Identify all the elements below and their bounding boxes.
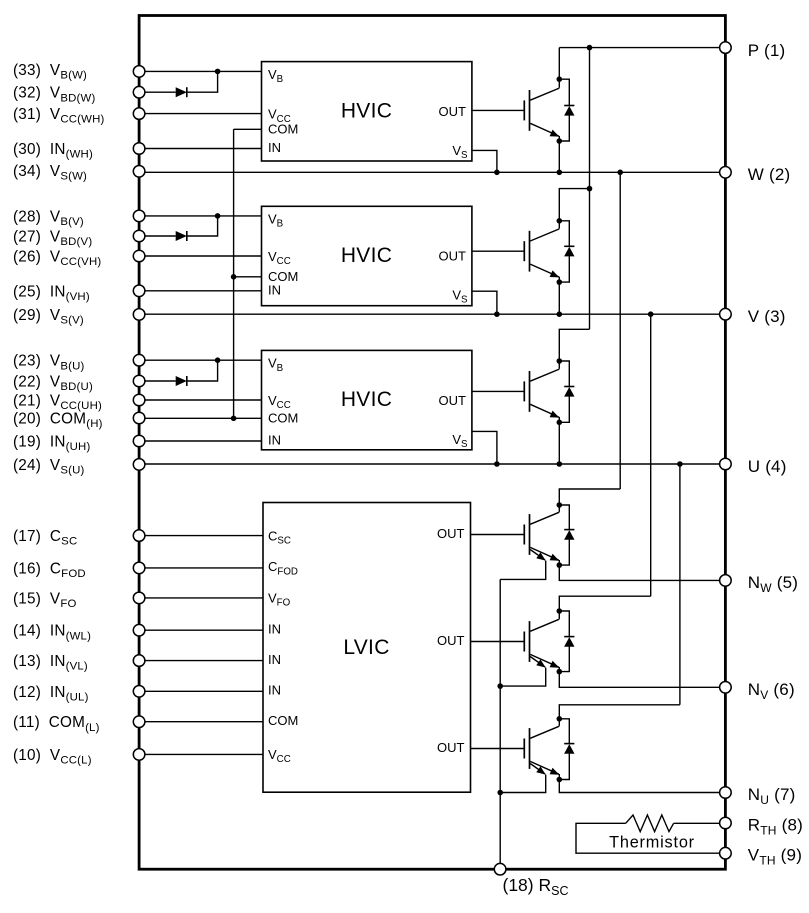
svg-text:COM: COM — [268, 122, 298, 137]
svg-text:W (2): W (2) — [748, 165, 791, 184]
svg-text:OUT: OUT — [437, 633, 465, 648]
svg-text:IN: IN — [268, 652, 281, 667]
svg-text:IN: IN — [268, 140, 281, 155]
svg-text:NW (5): NW (5) — [748, 573, 798, 595]
svg-text:IN: IN — [268, 683, 281, 698]
svg-text:NV (6): NV (6) — [748, 680, 795, 702]
svg-text:IN: IN — [268, 283, 281, 298]
svg-text:V (3): V (3) — [748, 307, 786, 326]
svg-text:HVIC: HVIC — [341, 244, 392, 267]
svg-text:LVIC: LVIC — [343, 636, 389, 659]
svg-text:U (4): U (4) — [748, 457, 787, 476]
svg-text:OUT: OUT — [439, 104, 467, 119]
svg-text:HVIC: HVIC — [341, 99, 392, 122]
svg-text:OUT: OUT — [437, 740, 465, 755]
svg-text:OUT: OUT — [437, 526, 465, 541]
svg-text:P (1): P (1) — [748, 41, 786, 60]
svg-text:HVIC: HVIC — [341, 388, 392, 411]
svg-text:OUT: OUT — [439, 393, 467, 408]
svg-text:Thermistor: Thermistor — [609, 834, 695, 852]
svg-text:VTH (9): VTH (9) — [748, 846, 802, 868]
svg-text:OUT: OUT — [439, 249, 467, 264]
svg-text:IN: IN — [268, 621, 281, 636]
svg-text:COM: COM — [268, 411, 298, 426]
svg-text:NU (7): NU (7) — [748, 785, 796, 807]
svg-text:IN: IN — [268, 433, 281, 448]
svg-text:COM: COM — [268, 713, 298, 728]
